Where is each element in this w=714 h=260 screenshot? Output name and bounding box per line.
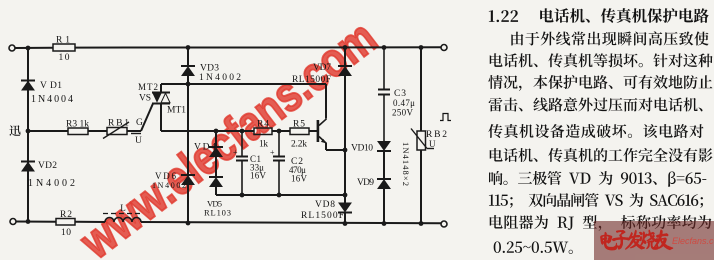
inductor L xyxy=(105,218,141,223)
banner site name xyxy=(672,236,714,246)
wire xyxy=(344,76,346,204)
diode VD6 1N4002 xyxy=(181,175,195,185)
diode VD10 1N4148 xyxy=(377,142,391,152)
wire: MT1 down and right xyxy=(160,104,162,132)
resistor R4 1k xyxy=(254,128,272,135)
wire: gate row xyxy=(28,130,68,132)
node xyxy=(277,129,282,134)
wire xyxy=(215,131,217,147)
wire xyxy=(420,48,422,132)
node xyxy=(343,221,348,226)
node: top rail VD3 xyxy=(186,45,191,50)
wire: MT2 to collector row y84 xyxy=(160,84,162,93)
diode VD4 xyxy=(209,147,223,157)
resistor R5 2.2k xyxy=(290,128,309,135)
wire xyxy=(141,222,441,223)
wire: gate lead to triac xyxy=(127,130,141,132)
resistor R3 1k xyxy=(68,128,88,135)
resistor R2 xyxy=(56,219,75,226)
wire: mid rail y195 xyxy=(216,194,345,196)
node: top-left junction xyxy=(26,46,31,51)
pulse symbol xyxy=(440,114,451,121)
node: C3 top xyxy=(382,45,387,50)
wire: top rail xyxy=(15,47,53,49)
resistor R1 xyxy=(53,44,75,51)
node: VD4 branch xyxy=(214,129,219,134)
diode VD7 RL1500F xyxy=(338,66,352,76)
node xyxy=(277,193,282,198)
node xyxy=(419,221,424,226)
wire: VD5 to mid rail xyxy=(215,187,217,196)
node xyxy=(343,148,348,153)
terminal: left line input top xyxy=(9,45,15,51)
node xyxy=(382,221,387,226)
wire xyxy=(88,130,107,132)
wire: bottom rail xyxy=(16,221,56,223)
watermark xyxy=(72,13,385,260)
wire xyxy=(383,188,385,224)
node: VD7 top xyxy=(343,45,348,50)
transistor VD 9013 xyxy=(317,119,327,144)
wire xyxy=(344,48,346,67)
circuit schematic xyxy=(0,0,470,260)
wire: emitter to VD7 line xyxy=(325,143,327,150)
varistor RB1 xyxy=(107,128,127,135)
wire: collector drop xyxy=(325,84,327,119)
wire xyxy=(272,130,290,132)
varistor RB2 xyxy=(417,131,426,150)
wire: left branch vertical xyxy=(27,48,29,222)
wire xyxy=(187,185,189,224)
node xyxy=(186,82,191,87)
node: mid-left junction xyxy=(26,129,31,134)
node: mid rail end xyxy=(343,193,348,198)
wire xyxy=(215,157,217,178)
diode VD1 1N4004 xyxy=(21,81,35,91)
diode VD2 1N4002 xyxy=(21,162,35,172)
red banner xyxy=(594,221,714,260)
capacitor C2 470u 16V xyxy=(278,131,280,157)
diode VD8 RL1500F xyxy=(338,203,352,213)
wire xyxy=(344,213,346,224)
node: bottom-left junction xyxy=(26,219,31,224)
node xyxy=(186,221,191,226)
node xyxy=(240,193,245,198)
terminal: right output bottom xyxy=(441,221,447,227)
wire: VD3 to VD6 xyxy=(187,84,189,175)
terminal: right output top xyxy=(441,45,447,51)
triac VS (SAC616) xyxy=(152,93,170,104)
node: RB2 top xyxy=(419,45,424,50)
wire xyxy=(75,221,105,223)
terminal: left line input bottom xyxy=(10,219,16,225)
diode VD3 1N4002 xyxy=(187,48,189,67)
wire xyxy=(383,151,385,179)
diode VD9 1N4148 xyxy=(377,179,391,189)
wire: base lead xyxy=(309,130,317,132)
wire xyxy=(420,150,422,224)
node xyxy=(240,129,245,134)
capacitor C3 0.47u 250V xyxy=(383,48,385,90)
diode VD5 RL103 xyxy=(209,177,223,187)
capacitor C1 33u 16V xyxy=(241,131,243,157)
